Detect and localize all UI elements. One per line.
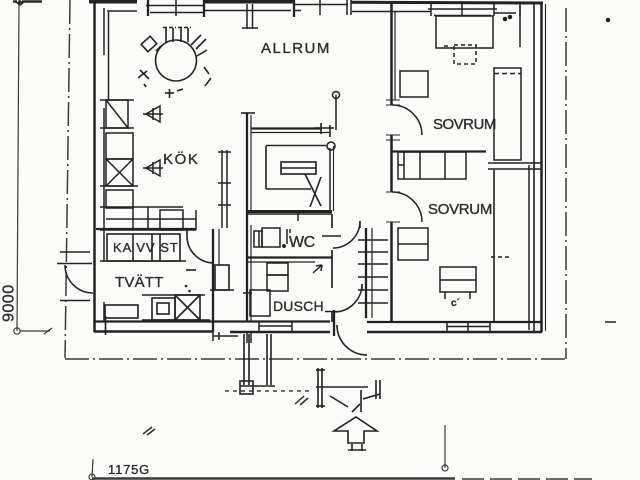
svg-text:KA VV ST: KA VV ST	[113, 240, 179, 255]
svg-text:TVÄTT: TVÄTT	[115, 274, 164, 291]
svg-text:ALLRUM: ALLRUM	[261, 40, 331, 57]
svg-text:WC: WC	[289, 234, 315, 251]
svg-text:c´: c´	[451, 298, 460, 309]
svg-text:DUSCH: DUSCH	[273, 298, 324, 314]
svg-text:SOVRUM: SOVRUM	[428, 201, 492, 218]
svg-text:9000: 9000	[1, 284, 18, 322]
svg-text:KÖK: KÖK	[163, 150, 199, 168]
svg-text:SOVRUM: SOVRUM	[433, 116, 496, 133]
svg-text:1175G: 1175G	[108, 462, 150, 477]
